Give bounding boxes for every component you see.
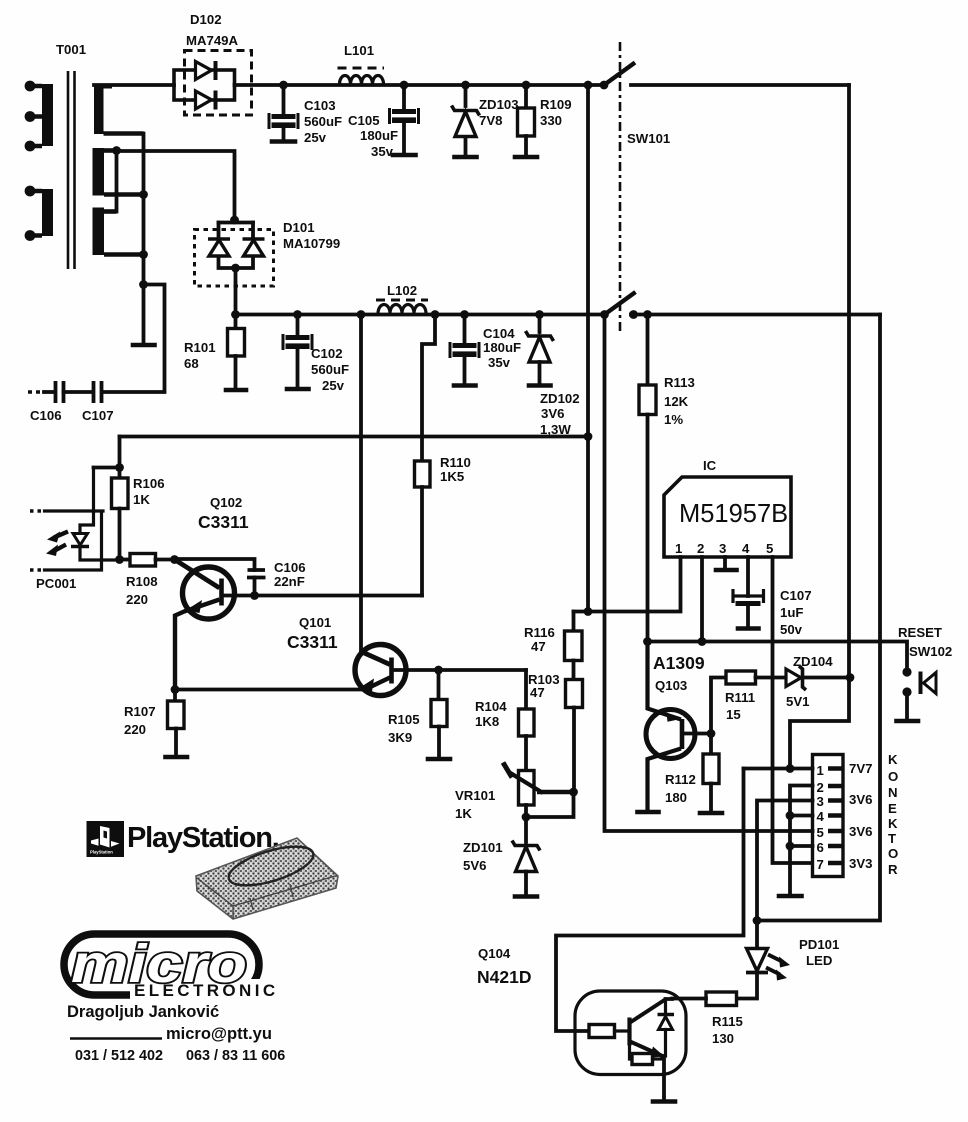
- wire konektor pin1 branch down to Q104 base: [556, 769, 744, 1032]
- svg-text:130: 130: [712, 1031, 734, 1046]
- svg-text:M51957B: M51957B: [679, 500, 788, 528]
- svg-text:22nF: 22nF: [274, 574, 305, 589]
- svg-text:3: 3: [719, 541, 726, 556]
- wire konektor pin 1: [744, 767, 813, 771]
- svg-text:R112: R112: [665, 772, 696, 787]
- resistor R104: [475, 670, 534, 771]
- svg-text:220: 220: [126, 592, 148, 607]
- capacitor C104: [450, 310, 521, 385]
- transformer T001 primary winding 1: [25, 81, 53, 152]
- terminator bar under transformer: [133, 343, 155, 348]
- console photo (halftone): [196, 838, 338, 919]
- capacitor C107 (mains): [82, 381, 114, 423]
- svg-text:3V6: 3V6: [849, 824, 872, 839]
- svg-text:ELECTRONIC: ELECTRONIC: [134, 981, 279, 1000]
- wire konektor pin 5 long: [605, 315, 813, 832]
- svg-text:C106: C106: [30, 408, 62, 423]
- resistor R111: [711, 671, 785, 734]
- svg-text:2: 2: [817, 780, 824, 795]
- IC pin 1 wire: [574, 557, 681, 612]
- transformer T001 core: [68, 71, 75, 269]
- svg-text:O: O: [888, 769, 898, 784]
- switch SW101 pole B: [600, 292, 635, 319]
- wire reset line: [648, 642, 908, 667]
- switch SW101 pole A: [584, 63, 635, 90]
- svg-text:PlayStation: PlayStation: [90, 850, 113, 855]
- svg-text:1: 1: [817, 763, 824, 778]
- resistor R105: [388, 670, 450, 759]
- transformer T001 secondary winding B: [93, 148, 144, 196]
- svg-text:1K5: 1K5: [440, 469, 464, 484]
- svg-text:560uF: 560uF: [304, 114, 342, 129]
- capacitor C106 (mains): [28, 381, 92, 423]
- svg-text:R101: R101: [184, 340, 216, 355]
- svg-text:VR101: VR101: [455, 788, 495, 803]
- svg-text:T: T: [888, 831, 896, 846]
- svg-text:ZD102: ZD102: [540, 391, 580, 406]
- wire top rail down right side: [790, 85, 849, 769]
- svg-text:PC001: PC001: [36, 576, 76, 591]
- resistor R115: [672, 992, 743, 1046]
- svg-text:2: 2: [697, 541, 704, 556]
- inductor L102: [376, 283, 428, 314]
- zener ZD102: [526, 310, 580, 437]
- svg-text:ZD101: ZD101: [463, 840, 503, 855]
- svg-text:Q103: Q103: [655, 678, 687, 693]
- svg-text:C105: C105: [348, 113, 380, 128]
- resistor R103: [528, 661, 583, 793]
- svg-text:K: K: [888, 752, 898, 767]
- svg-text:R107: R107: [124, 704, 156, 719]
- svg-text:12K: 12K: [664, 394, 689, 409]
- svg-text:7V8: 7V8: [479, 113, 502, 128]
- svg-text:7V7: 7V7: [849, 761, 872, 776]
- svg-text:5V6: 5V6: [463, 858, 486, 873]
- svg-text:N: N: [888, 785, 898, 800]
- diode D102 upper: [196, 62, 212, 80]
- svg-text:25v: 25v: [322, 378, 345, 393]
- zener ZD104: [786, 654, 854, 709]
- svg-text:C3311: C3311: [287, 632, 338, 652]
- wire secondary tap vertical x116: [115, 151, 119, 212]
- svg-text:L102: L102: [387, 283, 417, 298]
- svg-text:5V1: 5V1: [786, 694, 809, 709]
- wire top rail right: [631, 83, 849, 87]
- svg-text:IC: IC: [703, 458, 717, 473]
- resistor R113: [639, 315, 695, 642]
- svg-text:4: 4: [742, 541, 750, 556]
- capacitor C105: [348, 81, 419, 159]
- svg-text:R108: R108: [126, 574, 158, 589]
- svg-text:ZD104: ZD104: [793, 654, 833, 669]
- optocoupler PC001: [30, 468, 120, 592]
- svg-text:180uF: 180uF: [483, 340, 521, 355]
- svg-text:R110: R110: [440, 455, 471, 470]
- top rail wire: [94, 83, 174, 87]
- node tap B: [112, 146, 121, 155]
- wire vertical x588: [586, 85, 590, 612]
- svg-text:3V6: 3V6: [541, 406, 564, 421]
- svg-text:15: 15: [726, 707, 741, 722]
- transistor Q104 N421D digital transistor package: [477, 946, 686, 1102]
- svg-text:R104: R104: [475, 699, 507, 714]
- LED PD101: [737, 916, 840, 998]
- svg-text:68: 68: [184, 356, 199, 371]
- resistor R108: [120, 554, 175, 608]
- svg-text:SW101: SW101: [627, 131, 670, 146]
- svg-text:Dragoljub Janković: Dragoljub Janković: [67, 1003, 219, 1021]
- capacitor C102: [283, 310, 349, 393]
- svg-text:3V6: 3V6: [849, 792, 872, 807]
- wire horizontal y436: [120, 435, 589, 439]
- svg-text:MA10799: MA10799: [283, 236, 340, 251]
- svg-text:SW102: SW102: [909, 644, 952, 659]
- wire Q101 collector: [359, 315, 363, 653]
- svg-text:1K: 1K: [455, 806, 472, 821]
- wire konektor pin 3: [757, 801, 813, 921]
- svg-text:560uF: 560uF: [311, 362, 349, 377]
- wire Q102 base: [222, 594, 423, 598]
- PlayStation logo icon: [87, 821, 125, 857]
- svg-text:ZD103: ZD103: [479, 97, 519, 112]
- konektor box: [813, 755, 844, 877]
- diode D102 lower: [196, 91, 212, 109]
- transistor Q101: [287, 615, 406, 696]
- svg-text:7: 7: [817, 857, 824, 872]
- IC pin 5 wire to konektor pin 7: [773, 557, 813, 863]
- capacitor C103: [269, 81, 342, 145]
- svg-text:47: 47: [530, 685, 545, 700]
- inductor L101: [338, 43, 385, 84]
- wire transformer to C107: [102, 285, 165, 393]
- wire node to opto: [94, 466, 120, 470]
- transformer T001 secondary winding C: [93, 208, 144, 256]
- svg-text:C106: C106: [274, 560, 306, 575]
- svg-text:E: E: [888, 801, 897, 816]
- IC pin 3 ground: [723, 557, 727, 568]
- svg-text:4: 4: [817, 809, 825, 824]
- op-amp U1 IC M51957B body: [664, 458, 791, 557]
- svg-text:3K9: 3K9: [388, 730, 412, 745]
- wire Q103 base: [682, 732, 711, 736]
- svg-text:K: K: [888, 816, 898, 831]
- micro electronic logo: [64, 934, 292, 1001]
- svg-text:C107: C107: [82, 408, 114, 423]
- IC pin 2 wire: [700, 557, 704, 642]
- wire second rail down right side: [757, 315, 880, 921]
- svg-text:C102: C102: [311, 346, 343, 361]
- transistor Q102: [175, 495, 249, 690]
- svg-text:R106: R106: [133, 476, 165, 491]
- svg-text:1%: 1%: [664, 412, 683, 427]
- svg-text:1K8: 1K8: [475, 714, 499, 729]
- wire konektor pin 2-4-6 to ground: [790, 786, 813, 895]
- svg-text:C3311: C3311: [198, 512, 249, 532]
- diode pair D102 body: [174, 70, 235, 100]
- svg-text:C107: C107: [780, 588, 812, 603]
- zener ZD101: [463, 817, 540, 897]
- svg-text:C103: C103: [304, 98, 336, 113]
- svg-text:6: 6: [817, 840, 824, 855]
- svg-text:R115: R115: [712, 1014, 743, 1029]
- svg-text:C104: C104: [483, 326, 515, 341]
- svg-text:O: O: [888, 846, 898, 861]
- zener ZD103: [452, 81, 519, 157]
- svg-text:MA749A: MA749A: [186, 33, 239, 48]
- resistor R116: [524, 612, 582, 661]
- svg-text:50v: 50v: [780, 622, 803, 637]
- resistor R109: [515, 81, 572, 157]
- svg-text:25v: 25v: [304, 130, 327, 145]
- svg-text:180uF: 180uF: [360, 128, 398, 143]
- svg-text:R116: R116: [524, 625, 555, 640]
- svg-text:031 / 512 402: 031 / 512 402: [75, 1048, 163, 1064]
- svg-text:1: 1: [675, 541, 682, 556]
- svg-text:R113: R113: [664, 375, 695, 390]
- svg-text:R109: R109: [540, 97, 572, 112]
- second rail wire: [236, 313, 605, 317]
- pushbutton SW102 RESET: [897, 625, 953, 721]
- resistor R106: [112, 468, 165, 560]
- svg-text:330: 330: [540, 113, 562, 128]
- capacitor C106 22nF: [175, 559, 306, 600]
- svg-text:R: R: [888, 862, 898, 877]
- svg-text:PlayStation.: PlayStation.: [127, 822, 279, 854]
- wire Q101 base: [392, 668, 527, 672]
- svg-text:220: 220: [124, 722, 146, 737]
- resistor R107: [124, 690, 187, 758]
- resistor R110: [415, 310, 471, 595]
- KONEKTOR vertical label: [888, 752, 898, 877]
- svg-text:RESET: RESET: [898, 625, 942, 640]
- svg-text:Q104: Q104: [478, 946, 511, 961]
- transistor Q103 A1309: [638, 642, 705, 813]
- svg-text:R105: R105: [388, 712, 420, 727]
- svg-text:180: 180: [665, 790, 687, 805]
- transformer T001 primary winding 2: [25, 186, 53, 241]
- svg-text:D102: D102: [190, 12, 222, 27]
- D102 dashed box: [185, 51, 252, 116]
- wire Q101 emitter rail: [175, 688, 365, 692]
- svg-text:1uF: 1uF: [780, 605, 803, 620]
- svg-text:3: 3: [817, 794, 824, 809]
- wire down to R106 node: [118, 437, 122, 468]
- svg-text:LED: LED: [806, 953, 832, 968]
- svg-text:PD101: PD101: [799, 937, 839, 952]
- svg-text:T001: T001: [56, 42, 86, 57]
- svg-text:063 / 83 11 606: 063 / 83 11 606: [186, 1048, 285, 1064]
- svg-text:47: 47: [531, 639, 546, 654]
- svg-text:Q102: Q102: [210, 495, 242, 510]
- transformer T001 secondary winding A: [94, 84, 144, 134]
- svg-text:L101: L101: [344, 43, 374, 58]
- svg-text:5: 5: [817, 825, 824, 840]
- diode pair D101: [195, 216, 341, 315]
- svg-text:5: 5: [766, 541, 773, 556]
- svg-text:micro@ptt.yu: micro@ptt.yu: [166, 1025, 272, 1043]
- svg-text:35v: 35v: [371, 144, 394, 159]
- svg-text:R111: R111: [725, 690, 755, 705]
- svg-text:N421D: N421D: [477, 967, 531, 987]
- resistor R112: [665, 734, 722, 814]
- switch SW101 axis dash-dot line: [619, 42, 622, 332]
- svg-text:35v: 35v: [488, 355, 511, 370]
- svg-text:Q101: Q101: [299, 615, 331, 630]
- wire tap to D101: [117, 151, 235, 220]
- wire winding returns vertical x143: [142, 134, 146, 344]
- potentiometer VR101: [455, 763, 578, 822]
- svg-text:D101: D101: [283, 220, 315, 235]
- svg-text:3V3: 3V3: [849, 856, 872, 871]
- resistor R101: [184, 310, 246, 390]
- svg-text:1K: 1K: [133, 492, 150, 507]
- IC pin 4 wire and capacitor C107 1uF: [733, 557, 812, 637]
- svg-text:A1309: A1309: [653, 653, 705, 673]
